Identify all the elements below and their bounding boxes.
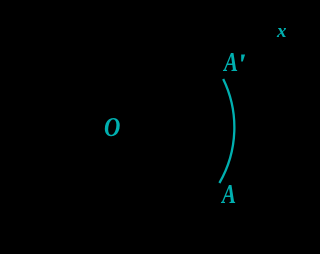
label A' : letter A: [224, 49, 238, 76]
label x: [277, 22, 287, 41]
label A: [222, 181, 236, 208]
label O: [104, 114, 120, 141]
